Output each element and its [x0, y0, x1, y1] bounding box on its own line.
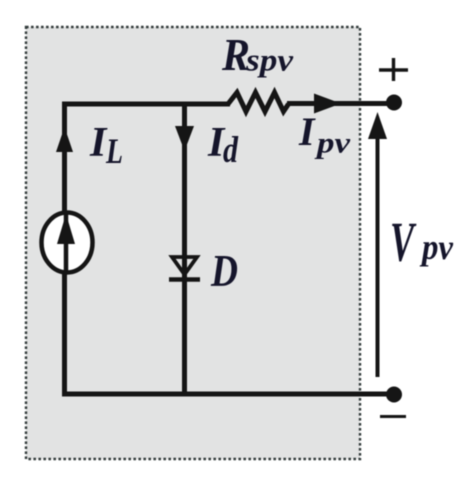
svg-text:pv: pv — [314, 127, 351, 160]
wire: top horizontal right segment (resistor to + terminal) — [287, 101, 394, 106]
resistor Rspv zigzag — [228, 93, 289, 112]
plus sign — [379, 58, 408, 81]
Vpv arrow (voltage reference, pointing up) — [368, 112, 387, 377]
current source IL (circle with upward arrow) — [42, 213, 93, 273]
wire: left vertical branch — [62, 102, 67, 395]
svg-text:d: d — [223, 130, 238, 171]
terminal node + (dot) — [386, 95, 402, 111]
PV cell boundary box — [26, 27, 360, 459]
wire: top horizontal left segment (node A to resistor) — [62, 102, 230, 107]
svg-text:D: D — [210, 245, 238, 296]
svg-text:V: V — [390, 212, 417, 274]
arrow IL (upward on left wire) — [56, 127, 73, 152]
svg-text:I: I — [298, 109, 316, 154]
minus sign — [380, 415, 406, 418]
arrow Id (downward on diode branch) — [175, 126, 194, 151]
wire: bottom horizontal (ground return) — [62, 392, 394, 397]
arrow Ipv (current direction on top wire) — [314, 94, 341, 114]
svg-text:pv: pv — [419, 227, 454, 267]
wire: diode branch vertical — [182, 102, 187, 395]
svg-text:L: L — [105, 131, 123, 171]
diode D (triangle outline + cathode bar) — [169, 257, 200, 280]
svg-text:spv: spv — [245, 42, 294, 78]
terminal node - (dot) — [386, 387, 402, 403]
